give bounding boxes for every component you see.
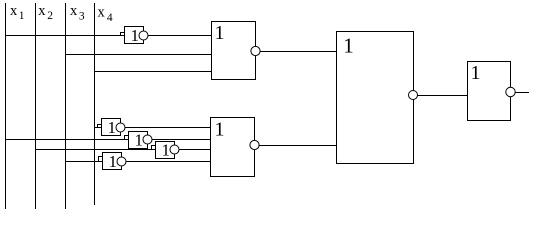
inverter U2 (input x4) (98, 119, 126, 136)
svg-text:x: x (98, 4, 106, 20)
svg-text:1: 1 (19, 10, 25, 22)
wire G3 output to gate G4 input (418, 95, 468, 97)
wire U1 output to gate G1 input 1 (148, 35, 212, 37)
inverter U3 (input x1) (125, 132, 153, 149)
svg-text:1: 1 (471, 62, 481, 84)
inverter U5 (input x3) (99, 153, 127, 170)
wire x4 to inverter U2 (94, 127, 102, 129)
svg-text:1: 1 (343, 34, 354, 58)
wire U3 output to gate G2 input 2 (152, 139, 211, 141)
input rail x3 (65, 3, 67, 209)
wire G1 output to gate G3 input 1 (260, 51, 337, 53)
svg-text:1: 1 (135, 131, 144, 150)
svg-text:x: x (10, 3, 18, 19)
wire U2 output to gate G2 input 1 (125, 127, 211, 129)
wire U4 output to gate G2 input 3 (179, 149, 211, 151)
svg-text:x: x (38, 3, 46, 19)
OR gate G2 (4-input NOR, bottom) (211, 118, 260, 177)
svg-text:1: 1 (108, 118, 117, 137)
wire x1 to inverter U1 (5, 35, 125, 37)
wire G2 output to gate G3 input 2 (259, 145, 337, 147)
wire x4 to gate G1 input 3 (94, 71, 212, 73)
wire x3 to gate G1 input 2 (65, 54, 212, 56)
OR gate G1 (3-input NOR, top) (212, 22, 261, 80)
input rail x4 (94, 3, 96, 205)
inverter U1 (input x1) (121, 27, 149, 44)
OR gate G3 (2-input NOR, large middle) (337, 32, 418, 164)
wire G4 output (516, 92, 530, 94)
input rail x1 (5, 3, 7, 209)
svg-text:3: 3 (79, 11, 85, 23)
svg-text:1: 1 (215, 22, 225, 44)
svg-text:1: 1 (109, 152, 118, 171)
svg-text:4: 4 (107, 12, 113, 24)
inverter U4 (input x2) (152, 142, 180, 159)
input rail x2 (35, 3, 37, 209)
svg-text:x: x (70, 3, 78, 19)
wire U5 output to gate G2 input 4 (126, 161, 211, 163)
wire x2 to inverter U4 (35, 149, 156, 151)
svg-text:1: 1 (162, 141, 171, 160)
wire x3 to inverter U5 (65, 161, 103, 163)
svg-text:2: 2 (47, 10, 53, 22)
OR gate G4 (output inverter stage) (468, 62, 516, 121)
svg-text:1: 1 (215, 119, 225, 141)
wire x1 to inverter U3 (5, 139, 129, 141)
svg-text:1: 1 (131, 26, 140, 45)
